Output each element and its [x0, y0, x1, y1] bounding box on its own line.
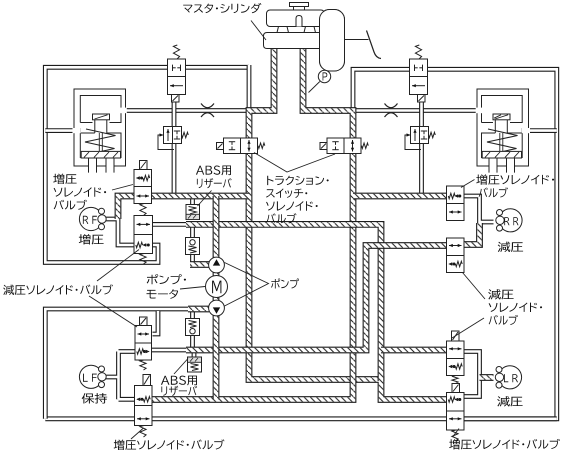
increase valve RL spring — [140, 426, 146, 438]
wire valve U corner — [153, 311, 159, 334]
push rod — [345, 39, 369, 41]
label zoatsu BL — [114, 439, 225, 450]
label ABS reservoir 2a — [161, 376, 197, 386]
pipe pump column — [213, 196, 220, 400]
hold valve RL solenoid — [140, 317, 148, 326]
label traction 1 — [267, 176, 329, 185]
wire pilot valve L drop — [172, 102, 177, 197]
label LR genatsu — [497, 396, 522, 406]
decrease valve FL body — [134, 216, 153, 254]
regulator left lower chamber — [80, 108, 121, 158]
label genatsu R2 — [489, 303, 542, 312]
label RF zoatsu — [79, 234, 104, 244]
wire check valve1 stubs — [190, 225, 195, 266]
increase valve FL solenoid — [140, 161, 148, 170]
wheel cylinder LF letters — [83, 374, 97, 382]
regulator right upper chamber — [482, 96, 523, 123]
valve A2 solenoid — [418, 95, 426, 103]
decrease valve RR body — [447, 238, 465, 273]
valve A1 body — [168, 59, 186, 95]
regulator left piston cap — [93, 114, 110, 120]
pipe check valve1 to pump — [190, 261, 209, 268]
wire left MC corner upper — [247, 65, 252, 112]
label genatsu left — [3, 284, 113, 295]
pump element 1 — [209, 257, 225, 273]
traction valve T1 body — [224, 138, 258, 154]
wire regulator R inlet stub — [522, 128, 557, 133]
node P circle — [318, 70, 330, 82]
regulator left seal piston — [81, 151, 120, 158]
reservoir ports — [277, 27, 289, 33]
pipe increase rail left (band A) — [118, 196, 249, 219]
pilot valve P2 body — [411, 127, 429, 144]
check valve 2 — [186, 319, 200, 336]
wire bottom-left circuit — [45, 309, 190, 419]
regulator right stem and spring — [499, 133, 501, 152]
traction valve T1 spring — [258, 143, 265, 148]
leader ABS reservoir 2 — [174, 359, 188, 375]
label genatsu R3 — [489, 315, 518, 325]
valve A2 spring — [415, 45, 421, 59]
regulator left upper chamber — [80, 96, 121, 123]
crossing symbol right line — [385, 104, 398, 118]
leader decrease FL lower — [89, 296, 137, 327]
wire RF wheel link — [104, 219, 134, 245]
label pump motor 1 — [147, 274, 186, 284]
wheel cylinder LF — [79, 365, 102, 388]
traction valve T1 solenoid — [217, 143, 224, 150]
increase valve RR body — [447, 186, 465, 221]
regulator left neck — [94, 120, 96, 133]
wheel cylinder RF — [79, 207, 102, 230]
wire check valve2 stubs — [190, 309, 195, 348]
pipe band1 right — [381, 347, 447, 354]
regulator left body — [74, 89, 126, 166]
pipe pump suction elbow — [188, 306, 209, 313]
wire LR wheel link — [464, 352, 480, 397]
increase valve LR spring — [452, 430, 458, 441]
wire reservoir1 stub — [190, 196, 195, 206]
label RR genatsu — [498, 242, 523, 252]
wire band1 lead-in — [152, 348, 191, 353]
pilot valve P1 pilot line — [158, 135, 174, 150]
label zoatsu L2 — [54, 187, 107, 196]
pipe increase rail right — [353, 193, 447, 200]
pump motor letter — [212, 281, 221, 294]
wheel cylinder RR letters — [504, 217, 518, 225]
leader pump motor — [180, 287, 205, 290]
traction valve T2 body — [327, 138, 361, 154]
wire regulator L outlet line — [120, 108, 250, 113]
valve A2 body — [410, 59, 428, 95]
leader decrease FL upper — [97, 250, 139, 282]
leader P — [309, 82, 320, 93]
check valve 1 — [186, 238, 200, 255]
wheel cylinder LR letters — [504, 374, 518, 382]
regulator right seal piston — [482, 151, 521, 158]
leader increase valve RR — [461, 180, 475, 188]
leader pump elements — [225, 263, 269, 307]
label zoatsu L1 — [53, 174, 76, 184]
increase valve RL solenoid — [143, 375, 151, 386]
label ABS reservoir 1b — [197, 178, 232, 188]
wire reservoir2 stub — [192, 348, 197, 358]
regulator right feet — [489, 159, 497, 173]
pipe band1 left and decrease feed — [186, 246, 447, 351]
traction valve T2 solenoid — [320, 143, 327, 150]
master cylinder body — [264, 33, 331, 49]
wheel cylinder RF letters — [83, 216, 97, 224]
regulator right body — [477, 89, 529, 166]
label traction 4 — [266, 213, 296, 223]
label zoatsu R2 — [479, 187, 508, 197]
wire left circuit loop — [45, 67, 249, 262]
traction valve T2 spring — [362, 143, 369, 148]
leader increase valve LR2 — [453, 429, 460, 438]
label genatsu R1 — [488, 289, 513, 299]
label traction 2 — [266, 189, 307, 199]
wheel cylinder RR — [499, 209, 522, 232]
crossing symbol left line — [201, 104, 214, 118]
leader master cylinder — [251, 21, 266, 41]
label pump — [271, 278, 299, 288]
node P letter — [323, 72, 328, 80]
increase valve FL body — [134, 170, 152, 204]
label zoatsu R1 — [476, 174, 554, 184]
leader increase valve FL — [112, 185, 133, 191]
wire right circuit loop top — [353, 69, 557, 419]
label zoatsu L3 — [54, 200, 87, 210]
pump motor M — [206, 276, 228, 298]
leader ABS reservoir 1 — [198, 191, 212, 207]
pilot valve P2 spring — [429, 132, 436, 137]
label LF hoji — [82, 393, 108, 403]
label traction 3 — [266, 201, 318, 210]
leader decrease RR — [463, 273, 486, 300]
regulator right port holes — [522, 128, 530, 133]
pump element 2 — [209, 300, 225, 316]
ABS reservoir 2 — [188, 357, 202, 372]
wire RR wheel link — [464, 196, 494, 225]
pipe MC right branch to band3a — [152, 48, 354, 400]
pipe return rail (band B) with drop — [186, 224, 381, 381]
regulator right piston cap — [493, 114, 510, 120]
brake booster — [320, 10, 345, 72]
master cylinder reservoir — [267, 10, 325, 27]
pipe LR wheel stub — [480, 374, 494, 381]
label master cylinder — [183, 3, 261, 13]
label zoatsu BR — [449, 439, 560, 450]
booster front half — [320, 10, 345, 72]
regulator right lower chamber — [482, 108, 523, 158]
brake pedal — [367, 31, 382, 59]
hold valve LR spring — [452, 376, 458, 384]
pipe MC left branch to band3b — [249, 48, 447, 400]
increase valve LR solenoid — [452, 384, 460, 393]
wire regulator R outlet line — [351, 108, 483, 113]
label ABS reservoir 1a — [196, 166, 231, 176]
wire LF wheel link — [104, 352, 136, 400]
valve A1 solenoid — [172, 95, 180, 103]
pilot valve P1 body — [164, 127, 182, 144]
regulator left stem and spring — [98, 133, 100, 152]
label pump motor 2 — [147, 289, 179, 299]
hold valve RL body — [135, 326, 152, 361]
reservoir filler neck — [296, 16, 302, 27]
increase valve RL body — [135, 386, 153, 426]
pilot valve P2 pilot line — [405, 135, 421, 150]
wire bottom long pipe — [45, 416, 557, 421]
pilot valve P1 spring — [182, 132, 189, 137]
hold valve RL spring — [140, 360, 146, 370]
wire pilot valve R drop — [419, 102, 424, 197]
hold valve LR solenoid — [452, 331, 460, 341]
regulator left feet — [89, 159, 97, 173]
wire regulator L inlet stub — [45, 128, 81, 133]
regulator right neck — [494, 120, 496, 133]
decrease valve FL spring — [140, 254, 146, 265]
label ABS reservoir 2b — [161, 386, 197, 396]
regulator left port holes — [73, 128, 81, 133]
hold valve LR body — [447, 341, 465, 376]
ABS reservoir 1 — [186, 205, 200, 220]
increase valve LR body — [447, 393, 465, 431]
reservoir cap — [290, 3, 309, 7]
wire band B lead-in — [153, 222, 191, 227]
leader traction valves — [254, 153, 335, 173]
leader decrease LR — [452, 318, 484, 338]
wheel cylinder LR — [498, 366, 521, 389]
leader increase valve RL — [131, 428, 144, 439]
pipe RR wheel to decrease valve — [464, 223, 480, 245]
increase valve FL spring — [140, 204, 146, 216]
valve A1 spring — [173, 45, 179, 59]
